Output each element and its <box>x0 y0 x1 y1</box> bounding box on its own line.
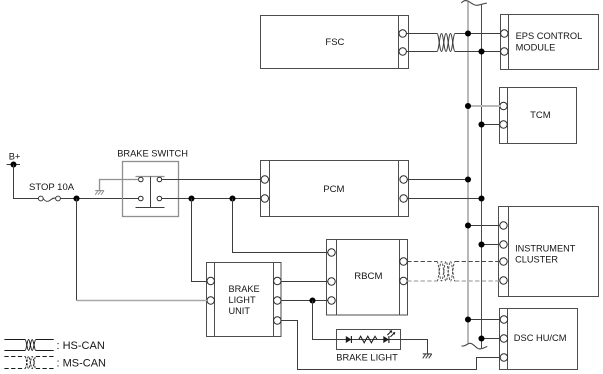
wire BLU pin1 to RBCM pin2 <box>281 281 328 283</box>
node rbcm feed <box>229 195 235 201</box>
node brake light feed <box>309 297 315 303</box>
DSC HU/CM box <box>500 309 578 370</box>
wire coil to EPS pin2 <box>455 51 501 53</box>
node bus-left PCM <box>465 176 471 182</box>
wire node to brake light <box>313 301 337 340</box>
svg-text:RBCM: RBCM <box>354 271 382 282</box>
PCM box <box>261 161 409 217</box>
svg-text:EPS CONTROL: EPS CONTROL <box>516 31 583 41</box>
svg-text:BRAKE SWITCH: BRAKE SWITCH <box>117 149 188 159</box>
wire coil to EPS pin1 <box>455 33 501 35</box>
svg-text:UNIT: UNIT <box>229 306 251 316</box>
node bus-right DSC <box>478 335 484 341</box>
LED D2 <box>383 330 395 343</box>
wire bus to IC pin2 <box>482 244 501 246</box>
legend HS-CAN <box>4 340 104 352</box>
svg-text:LIGHT: LIGHT <box>229 295 256 305</box>
svg-text:CLUSTER: CLUSTER <box>515 254 558 264</box>
svg-text:: HS-CAN: : HS-CAN <box>57 340 105 352</box>
node bus-left TCM <box>465 103 471 109</box>
wire lamp to ground <box>401 340 428 354</box>
wire node to BLU pin2 (horizontal gray) <box>77 300 208 302</box>
wire FSC pin2 to coil <box>406 51 437 53</box>
wire PCM right pin2 to right bus <box>407 198 481 200</box>
ground at brake light <box>423 354 432 358</box>
wire switch to PCM top <box>162 179 261 181</box>
wire node to BLU pin1 <box>192 199 208 282</box>
wire bus to DSC pin1 <box>468 319 500 321</box>
wire node to RBCM pin1 <box>233 199 328 253</box>
bus break squiggle bottom <box>462 343 488 349</box>
dashed MS-CAN L wire RBCM to IC (gray) <box>407 280 500 282</box>
node brake light unit feed <box>188 195 194 201</box>
node bus-right TCM <box>478 121 484 127</box>
legend MS-CAN <box>4 357 106 370</box>
node after fuse <box>73 195 79 201</box>
wire bus to DSC pin2 <box>482 338 501 340</box>
EPS CONTROL MODULE box <box>501 15 599 70</box>
FSC box <box>261 16 409 69</box>
wire FSC pin1 to coil <box>406 33 437 35</box>
wire bus to IC pin1 <box>468 225 500 227</box>
brake switch box <box>117 149 188 217</box>
svg-text:B+: B+ <box>9 151 21 161</box>
wire B+ down <box>14 165 39 199</box>
wire bus to TCM pin1 (gray) <box>468 105 500 107</box>
resistor <box>359 336 377 343</box>
diode D1 <box>346 336 352 343</box>
wire bus to TCM pin2 <box>482 124 501 126</box>
wire PCM right pin1 to left bus <box>407 179 468 181</box>
node bus-left DSC <box>465 316 471 322</box>
node bus-right IC <box>478 241 484 247</box>
bus HS-CAN left (light) <box>467 1 469 344</box>
svg-text:TCM: TCM <box>530 110 551 121</box>
bus HS-CAN right (dark) <box>481 5 483 348</box>
wire DSC pin3 loop <box>281 321 500 370</box>
brake switch contacts <box>136 177 165 208</box>
bus break squiggle top <box>461 1 487 6</box>
lamp internal wire <box>337 339 401 341</box>
node bus-right PCM <box>478 195 484 201</box>
TCM box <box>500 88 577 144</box>
dashed MS-CAN H wire RBCM to IC <box>407 261 500 263</box>
svg-text:FSC: FSC <box>325 37 344 48</box>
INSTRUMENT CLUSTER box <box>499 207 599 297</box>
B+ terminal <box>7 151 21 167</box>
svg-text:BRAKE: BRAKE <box>229 284 260 294</box>
brake light lamp box <box>336 330 400 363</box>
node bus-left IC <box>465 222 471 228</box>
fuse STOP 10A <box>29 182 75 201</box>
BRAKE LIGHT UNIT box <box>207 263 282 337</box>
ground at brake switch <box>95 180 138 195</box>
svg-text:: MS-CAN: : MS-CAN <box>57 357 107 369</box>
svg-text:STOP 10A: STOP 10A <box>29 182 75 193</box>
svg-text:MODULE: MODULE <box>516 43 556 53</box>
twisted pair MS-CAN (dashed coil) <box>437 262 455 282</box>
svg-text:PCM: PCM <box>323 184 344 195</box>
node bus-right FSC <box>478 48 484 54</box>
twisted pair HS-CAN (FSC) <box>437 34 455 52</box>
wire fuse to switch <box>60 198 138 200</box>
node bus-left FSC <box>465 30 471 36</box>
svg-text:BRAKE LIGHT: BRAKE LIGHT <box>336 353 398 363</box>
wire node to BLU pin2 (vertical) <box>76 199 78 301</box>
wire BLU pin2 to RBCM pin3 <box>281 300 328 302</box>
svg-text:DSC HU/CM: DSC HU/CM <box>514 333 567 343</box>
svg-text:INSTRUMENT: INSTRUMENT <box>515 244 576 254</box>
RBCM box <box>327 240 408 316</box>
wire switch to PCM bottom <box>162 198 261 200</box>
